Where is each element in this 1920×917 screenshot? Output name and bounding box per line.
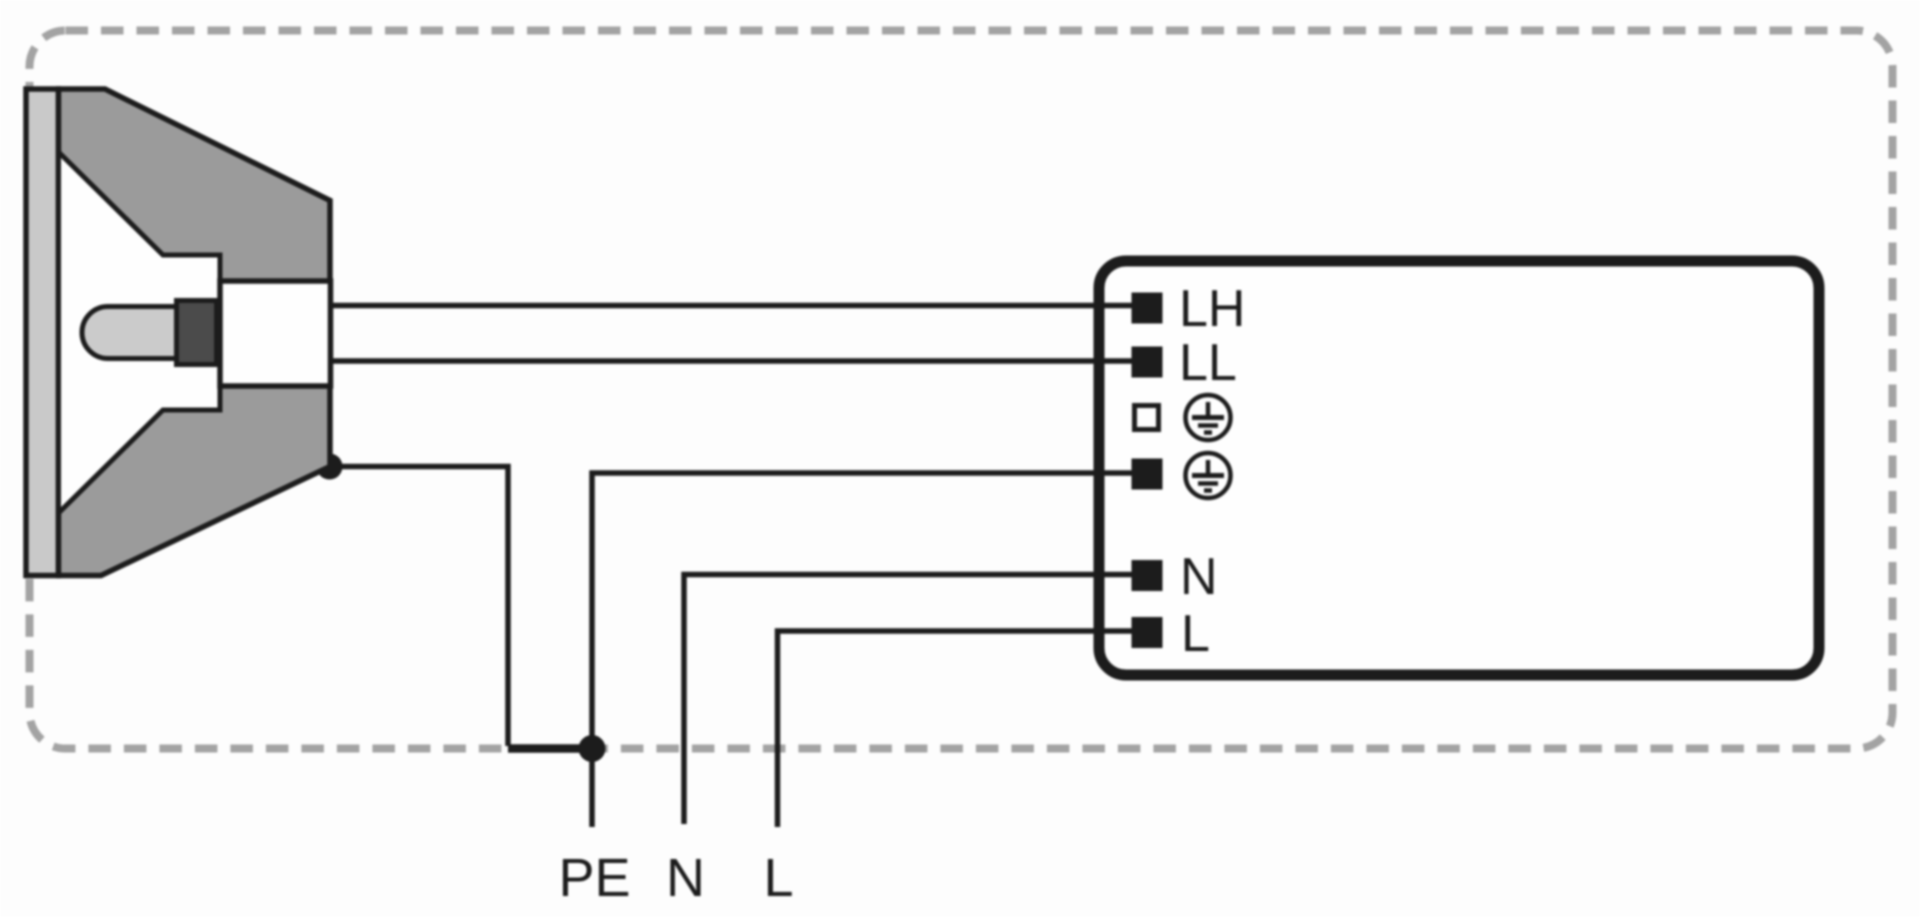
svg-text:L: L bbox=[1181, 605, 1210, 663]
lamp LA1: socket block bbox=[220, 281, 331, 386]
terminal LL bbox=[1132, 347, 1163, 378]
terminal protective earth bbox=[1132, 459, 1163, 490]
wire L bbox=[778, 631, 1151, 827]
ballast / control gear box U1 bbox=[1099, 261, 1819, 675]
svg-text:LH: LH bbox=[1179, 280, 1245, 338]
lamp LA1: bulb base bbox=[177, 301, 217, 365]
lamp LA1: bulb envelope bbox=[82, 307, 177, 359]
svg-text:PE: PE bbox=[558, 848, 630, 908]
wire segment along enclosure edge bbox=[508, 744, 592, 753]
earth symbol (functional) bbox=[1186, 395, 1231, 440]
terminal N bbox=[1132, 560, 1163, 591]
lamp LA1: reflector cavity bbox=[59, 152, 221, 513]
luminaire enclosure dashed boundary bbox=[30, 31, 1893, 749]
svg-text:N: N bbox=[666, 848, 705, 908]
wire lamp earth to PE node bbox=[330, 467, 509, 747]
svg-text:N: N bbox=[1180, 548, 1218, 606]
junction node PE bbox=[579, 735, 606, 762]
wire PE (terminal earth to PE lead) bbox=[592, 473, 1150, 827]
wire LL (lamp to terminal LL) bbox=[330, 358, 1150, 364]
svg-text:LL: LL bbox=[1179, 334, 1237, 392]
svg-text:L: L bbox=[763, 848, 793, 908]
terminal L bbox=[1132, 617, 1163, 648]
wire LH (lamp to terminal LH) bbox=[330, 303, 1150, 309]
wire N bbox=[684, 575, 1150, 825]
terminal LH bbox=[1132, 293, 1163, 324]
earth symbol (protective) bbox=[1186, 453, 1231, 498]
junction node on lamp housing bbox=[317, 454, 343, 480]
lamp LA1: reflector housing body bbox=[59, 89, 331, 576]
terminal functional earth (open) bbox=[1135, 406, 1159, 430]
lamp LA1: face plate bar bbox=[26, 89, 59, 576]
